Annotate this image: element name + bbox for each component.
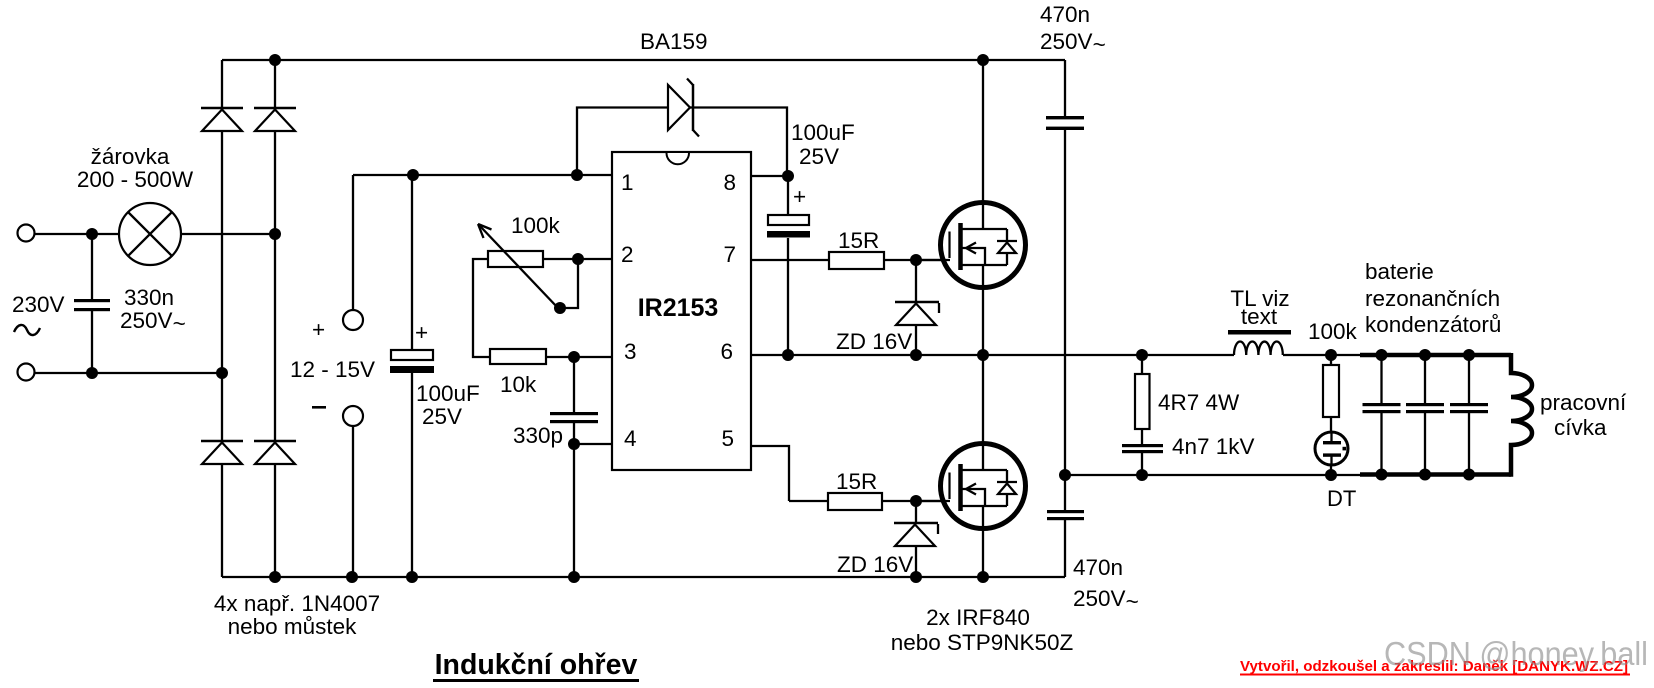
wire pin 7 to 15R: [749, 259, 829, 261]
wire 330p lower lead to pin 4: [574, 423, 612, 444]
wire 330n lower lead: [91, 311, 93, 373]
node wiper tap: [554, 302, 566, 314]
neon lamp DT: [1315, 432, 1348, 465]
svg-text:cívka: cívka: [1554, 415, 1607, 440]
svg-text:100uF: 100uF: [791, 120, 855, 145]
svg-text:kondenzátorů: kondenzátorů: [1365, 312, 1501, 337]
svg-text:DT: DT: [1327, 486, 1356, 511]
node upper gate zener: [910, 254, 922, 266]
wire half-bridge output bus pin 6: [749, 354, 1234, 356]
wire bridge left vertical: [221, 60, 223, 577]
resistor 4R7 4W: [1135, 374, 1150, 429]
svg-text:nebo STP9NK50Z: nebo STP9NK50Z: [891, 630, 1074, 655]
node return bus 4n7: [1136, 469, 1148, 481]
wire thick tank bottom bus: [1360, 472, 1511, 477]
svg-text:5: 5: [721, 426, 734, 451]
svg-text:2: 2: [621, 242, 634, 267]
svg-text:6: 6: [720, 339, 733, 364]
node ground pin4: [568, 571, 580, 583]
potentiometer 100k: [478, 224, 558, 308]
wire 10k to pin 3: [546, 356, 612, 358]
svg-text:text: text: [1241, 304, 1278, 329]
wire tank cap 2 leads: [1424, 355, 1426, 475]
wire lower zener cathode lead: [915, 501, 917, 523]
svg-text:100uF: 100uF: [416, 381, 480, 406]
wire lower 15R to gate: [882, 500, 950, 502]
wire thick tank top bus: [1360, 353, 1511, 358]
diode bridge D2 upper right: [254, 108, 296, 131]
wire 4R7 upper lead: [1141, 355, 1143, 374]
wire Vcc rail to pin 1: [353, 174, 612, 176]
diode BA159 bootstrap: [668, 79, 699, 137]
wire plus terminal to Vcc rail: [352, 175, 354, 310]
node tank bottom 2: [1419, 469, 1431, 481]
svg-text:230V: 230V: [12, 292, 65, 317]
node lamp-330n junction: [86, 228, 98, 240]
input terminal N: [18, 364, 35, 381]
capacitor 330n 250V~: [74, 299, 110, 311]
node lamp to bridge AC1: [269, 228, 281, 240]
capacitor C1 100uF 25V supply: [390, 350, 434, 373]
resistor 10k: [490, 349, 546, 364]
wire upper MOSFET source to output: [982, 287, 984, 355]
node ground 100uF: [406, 571, 418, 583]
wire 15R to upper gate: [884, 259, 950, 261]
transistor Q2 IRF840 lower: [917, 444, 1026, 529]
svg-text:250V~: 250V~: [1040, 29, 1106, 57]
wire AC input top: [34, 233, 120, 235]
capacitor tank 2: [1406, 403, 1444, 413]
svg-text:baterie: baterie: [1365, 259, 1434, 284]
svg-text:7: 7: [723, 242, 736, 267]
wire lower MOSFET source to ground: [982, 528, 984, 577]
node tank top 3: [1463, 349, 1475, 361]
svg-text:25V: 25V: [422, 404, 462, 429]
diode bridge D1 upper left: [201, 108, 243, 131]
svg-text:ZD 16V: ZD 16V: [837, 552, 913, 577]
node ground bridge: [269, 571, 281, 583]
node ground lower zener: [910, 571, 922, 583]
wire 470n caps middle leg: [1064, 130, 1066, 510]
diode bridge D3 lower left: [201, 441, 243, 464]
inductor pracovní cívka work coil: [1511, 353, 1532, 477]
node half-bridge midpoint: [977, 349, 989, 361]
credit red text: [1240, 659, 1630, 676]
svg-text:250V~: 250V~: [1073, 586, 1139, 614]
svg-text:rezonančních: rezonančních: [1365, 286, 1500, 311]
wire upper MOSFET drain: [982, 60, 984, 203]
capacitor tank 1: [1363, 403, 1401, 413]
node output bus bootstrap: [782, 349, 794, 361]
svg-text:pracovní: pracovní: [1540, 390, 1627, 415]
node output bus 100k: [1325, 349, 1337, 361]
node pin4 330p: [568, 438, 580, 450]
svg-text:330n: 330n: [124, 285, 174, 310]
wire after TL choke: [1283, 354, 1365, 356]
resistor R1 15R upper gate: [829, 252, 884, 269]
node pin2 wiper: [572, 253, 584, 265]
resistor R2 15R lower gate: [828, 493, 882, 510]
resistor 100k damping: [1323, 365, 1339, 417]
wire 100uF bootstrap lower lead: [787, 238, 789, 355]
svg-text:470n: 470n: [1040, 2, 1090, 27]
node pin8 bootstrap: [782, 170, 794, 182]
node return bus DT: [1325, 469, 1337, 481]
wire 4n7 lower lead: [1141, 453, 1143, 475]
svg-text:CSDN @honey.ball: CSDN @honey.ball: [1384, 635, 1648, 672]
svg-text:100k: 100k: [511, 213, 561, 238]
wire lamp to bridge: [181, 233, 275, 235]
node top bus MOSFET drain: [977, 54, 989, 66]
wire 100uF bootstrap upper lead: [787, 176, 789, 215]
node tank bottom 3: [1463, 469, 1475, 481]
lamp žárovka 200-500W: [119, 203, 181, 265]
title Indukční ohřev: [433, 649, 639, 682]
svg-text:25V: 25V: [799, 144, 839, 169]
capacitor 470n 250V~ lower: [1047, 510, 1084, 520]
node top bus bridge junction: [269, 54, 281, 66]
wire upper zener anode lead: [915, 325, 917, 355]
wire lower MOSFET drain: [982, 355, 984, 444]
capacitor 330p: [550, 412, 598, 423]
terminal minus 12-15V: [343, 406, 363, 426]
wire 100uF supply lower lead: [411, 373, 413, 577]
capacitor 4n7 1kV: [1122, 444, 1163, 453]
node AC2 bridge junction: [216, 367, 228, 379]
svg-text:+: +: [793, 184, 806, 209]
svg-text:ZD 16V: ZD 16V: [836, 329, 912, 354]
input terminal L: [18, 225, 35, 242]
node output bus 4R7: [1136, 349, 1148, 361]
svg-text:BA159: BA159: [640, 29, 708, 54]
svg-text:4R7 4W: 4R7 4W: [1158, 390, 1240, 415]
wire pot wiper: [560, 259, 578, 308]
wire pin 5 branch: [749, 446, 789, 501]
svg-text:Indukční ohřev: Indukční ohřev: [435, 649, 638, 681]
node output bus zener: [910, 349, 922, 361]
svg-text:2x IRF840: 2x IRF840: [926, 605, 1030, 630]
svg-text:10k: 10k: [500, 372, 537, 397]
wire bottom ground bus: [222, 576, 1065, 578]
wire pot to pin 2: [543, 258, 612, 260]
svg-text:+: +: [312, 317, 325, 342]
wire upper zener cathode lead: [915, 260, 917, 302]
svg-text:8: 8: [723, 170, 736, 195]
terminal plus 12-15V: [343, 310, 363, 330]
wire bridge right vertical: [274, 60, 276, 577]
svg-text:IR2153: IR2153: [638, 294, 719, 322]
node tank top 2: [1419, 349, 1431, 361]
node tank bottom 1: [1376, 469, 1388, 481]
node pin3 330p: [568, 351, 580, 363]
svg-text:15R: 15R: [838, 228, 879, 253]
svg-text:15R: 15R: [836, 469, 877, 494]
node return bus caps midpoint: [1059, 469, 1071, 481]
node ground minus terminal: [346, 571, 358, 583]
svg-text:+: +: [415, 320, 428, 345]
wire tank cap 3 leads: [1468, 355, 1470, 475]
svg-text:470n: 470n: [1073, 555, 1123, 580]
wire caps midpoint return bus: [1065, 474, 1365, 476]
diode bridge D4 lower right: [254, 441, 296, 464]
op-amp U1 IR2153 body: [612, 152, 751, 470]
svg-text:330p: 330p: [513, 423, 563, 448]
wire DT neon lower lead: [1330, 464, 1332, 475]
node ground lower source: [977, 571, 989, 583]
zener ZD 16V upper: [895, 302, 939, 325]
svg-text:4n7 1kV: 4n7 1kV: [1172, 434, 1255, 459]
wire 100k upper lead: [1330, 355, 1332, 365]
svg-text:200 - 500W: 200 - 500W: [77, 167, 194, 192]
svg-text:žárovka: žárovka: [91, 144, 170, 169]
zener ZD 16V lower: [894, 523, 938, 546]
wire pot left lead: [473, 259, 490, 357]
svg-text:100k: 100k: [1308, 319, 1358, 344]
wire AC input bottom: [34, 372, 222, 374]
node Vcc rail BA159: [571, 169, 583, 181]
wire 100k to DT neon: [1330, 417, 1332, 433]
capacitor C2 100uF 25V bootstrap: [767, 215, 810, 238]
node tank top 1: [1376, 349, 1388, 361]
wire tank cap 1 leads: [1380, 355, 1382, 475]
transistor Q1 IRF840 upper: [917, 203, 1026, 288]
wire minus terminal to ground bus: [352, 426, 354, 577]
wire lower zener anode lead: [915, 547, 917, 577]
wire BA159 anode branch: [577, 108, 787, 177]
svg-text:12 - 15V: 12 - 15V: [290, 357, 375, 382]
inductor TL choke: [1228, 330, 1291, 355]
node 330n bottom junction: [86, 367, 98, 379]
capacitor 470n 250V~ upper: [1046, 116, 1084, 130]
capacitor tank 3: [1450, 403, 1488, 413]
wire pin5 corner to lower 15R: [789, 500, 828, 502]
wire 4R7 to 4n7: [1141, 429, 1143, 444]
svg-text:4x např. 1N4007: 4x např. 1N4007: [214, 591, 380, 616]
wire 100uF supply upper lead: [411, 175, 413, 350]
svg-text:4: 4: [624, 426, 637, 451]
svg-text:250V~: 250V~: [120, 308, 186, 336]
wire pin 8 stub: [749, 175, 788, 177]
svg-text:3: 3: [624, 339, 637, 364]
node lower gate zener: [910, 495, 922, 507]
wire 330p upper lead: [573, 357, 575, 412]
svg-text:1: 1: [621, 170, 634, 195]
AC tilde symbol: [14, 325, 40, 335]
wire top DC+ bus: [222, 59, 1065, 61]
svg-text:nebo můstek: nebo můstek: [228, 614, 358, 639]
wire 330n upper lead: [91, 234, 93, 299]
wire 470n bottom cap lower lead: [1064, 520, 1066, 577]
label minus sign supply: [312, 406, 326, 409]
node Vcc rail 100uF: [407, 169, 419, 181]
wire 470n top cap upper lead: [1064, 60, 1066, 116]
wire pin 4 to ground: [573, 444, 575, 577]
